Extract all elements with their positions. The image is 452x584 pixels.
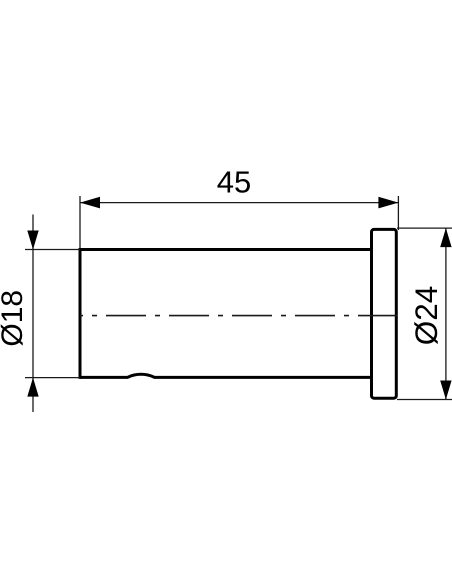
dimension line 45	[80, 202, 398, 204]
extension line bottom of dia 24	[397, 399, 452, 401]
svg-text:Ø24: Ø24	[408, 286, 444, 346]
extension line bottom of dia 18	[25, 377, 80, 379]
arrowhead left of dim 45	[80, 197, 100, 209]
arrowhead right of dim 45	[378, 197, 398, 209]
arrowhead top of dia 24 pointing up	[440, 228, 451, 247]
arrowhead bottom of dia 18 pointing up	[27, 378, 38, 397]
flange outline	[372, 229, 397, 398]
arrowhead bottom of dia 24 pointing down	[440, 381, 451, 400]
centerline	[80, 315, 398, 317]
dimension line diameter 24	[445, 228, 447, 399]
dimension line diameter 18	[32, 215, 34, 413]
svg-text:45: 45	[217, 164, 251, 199]
svg-text:Ø18: Ø18	[0, 290, 29, 347]
extension line left of 45 dim	[79, 196, 81, 248]
arrowhead top of dia 18 pointing down	[27, 231, 38, 250]
extension line top of dia 18	[25, 249, 80, 251]
cylinder body outline	[80, 248, 373, 379]
extension line top of dia 24	[397, 227, 452, 229]
extension line right of 45 dim	[397, 196, 399, 230]
